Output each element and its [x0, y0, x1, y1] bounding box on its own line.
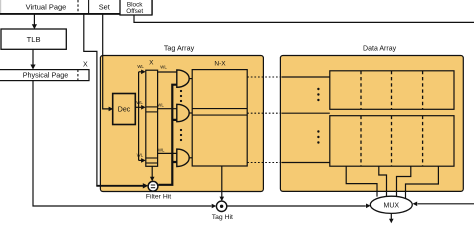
data bank 2: [330, 116, 454, 167]
wire: data column 1 to mux: [346, 166, 377, 197]
wire: gate 2 output to N-X array: [189, 112, 193, 114]
wire: dashed X-field divider in virtual page: [77, 0, 79, 13]
wire: word line X column to gate 2: [158, 108, 177, 110]
wire: mux output down arrow: [390, 213, 392, 219]
wire: word-line bus bottom arrow into X column: [139, 159, 142, 161]
N-X tag bits array: [192, 70, 247, 166]
wire: block offset to the right edge: [134, 15, 474, 22]
svg-text:MUX: MUX: [384, 203, 400, 210]
wire: virtual page X field down to filter comparator: [84, 14, 97, 186]
filter comparator circle: [148, 181, 158, 191]
wire: gate 1 output to N-X array: [189, 78, 193, 80]
wire: dashed way divider 2: [391, 71, 393, 166]
tag hit node circle: [216, 201, 226, 211]
wire: X column selected row dividers middle: [146, 106, 158, 108]
node: data array ellipsis dots bottom: [317, 130, 319, 132]
wire: word line X column to gate 1: [158, 71, 177, 73]
wire: N-X selected row dividers: [192, 108, 247, 110]
svg-text:WL: WL: [157, 102, 164, 107]
wire: word-line bus top arrow into X column: [139, 71, 142, 73]
virtual address register box: [0, 0, 152, 14]
wire: dashed way divider 1: [360, 71, 362, 166]
svg-text:WL: WL: [137, 152, 144, 157]
wire: set index down into tag array to decoder: [103, 14, 111, 109]
svg-text:WL: WL: [160, 65, 167, 70]
wire: decoder output arrow to X column: [135, 106, 141, 108]
svg-text:Physical Page: Physical Page: [23, 71, 69, 80]
node: tag array ellipsis dots bottom: [180, 129, 182, 131]
wire: dashed row line 3 tag to data: [247, 162, 282, 164]
svg-text:Tag Array: Tag Array: [164, 43, 195, 52]
wire: dashed X-field divider in physical page: [77, 70, 79, 81]
svg-text:Set: Set: [99, 2, 110, 11]
wire: gate 3 output to N-X array: [189, 157, 193, 159]
svg-text:Virtual Page: Virtual Page: [26, 2, 67, 11]
wire: X column selected row dividers bottom: [146, 157, 158, 159]
svg-text:Offset: Offset: [126, 8, 143, 15]
svg-text:X: X: [83, 62, 88, 69]
X tag-bits column: [146, 70, 158, 166]
wire: word-line bus vertical: [138, 72, 140, 161]
block offset register box: [120, 0, 152, 15]
gate G2: [177, 104, 189, 121]
wire: N-X result down to tag hit arrow: [221, 166, 223, 198]
svg-text:TLB: TLB: [27, 35, 41, 44]
svg-text:X: X: [149, 59, 154, 66]
wire: data column 4 to mux: [406, 166, 439, 198]
physical page register box: [0, 70, 89, 81]
tag array block: [100, 56, 263, 192]
gate G1: [177, 70, 189, 87]
wire: right edge input to mux arrow: [418, 203, 474, 205]
svg-text:Dec: Dec: [118, 107, 131, 114]
wire: X column down to filter comparator arrow: [151, 166, 153, 178]
decoder Dec box: [113, 94, 136, 125]
node: data array ellipsis dots top: [317, 88, 319, 90]
wire: tag hit to mux arrow: [227, 205, 366, 207]
wire: divider between virtual page and set: [88, 0, 90, 13]
wire: data column 2 to mux: [379, 166, 387, 197]
wire: virtual page to TLB arrow: [33, 14, 35, 25]
data array block: [280, 56, 463, 192]
wire: word line X column to gate 3: [158, 152, 177, 154]
wire: dashed row line 1 tag to data: [247, 76, 282, 78]
wire: TLB to physical page arrow: [32, 49, 34, 65]
svg-text:N-X: N-X: [214, 60, 226, 67]
wire: filter-hit bus to gate second inputs: [158, 85, 176, 185]
wire: virtual page X bits into filter comparator: [96, 185, 143, 187]
mux ellipse: [370, 196, 412, 213]
wire: dashed row line 2 tag to data: [247, 112, 282, 114]
gate G3: [177, 149, 189, 166]
data bank 1: [330, 71, 454, 110]
wire: data column 3 to mux: [397, 166, 411, 197]
TLB box: [1, 29, 66, 49]
wire: physical page down and right to tag hit: [33, 81, 212, 206]
node: tag array ellipsis dots top: [180, 90, 182, 92]
svg-text:WL: WL: [136, 100, 143, 105]
wire: dashed way divider 3: [422, 71, 424, 166]
svg-text:Tag Hit: Tag Hit: [212, 214, 233, 221]
svg-text:WL: WL: [158, 148, 165, 153]
svg-text:WL: WL: [137, 64, 144, 69]
svg-text:Filter Hit: Filter Hit: [146, 194, 171, 201]
svg-text:Data Array: Data Array: [363, 45, 397, 52]
